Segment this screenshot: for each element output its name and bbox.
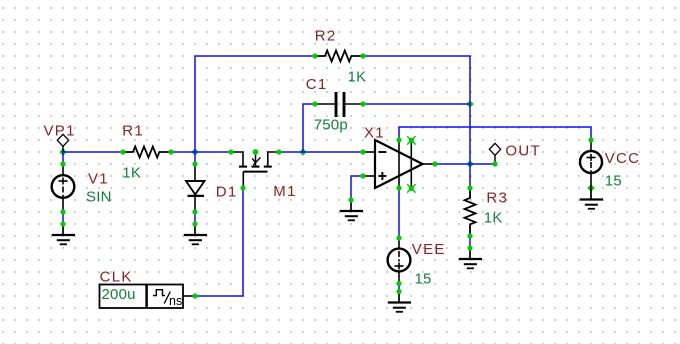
- svg-text:OUT: OUT: [505, 143, 541, 160]
- node junction C1-R2 bus: [466, 100, 473, 107]
- node junction at C1 tap: [299, 148, 306, 155]
- wire op-amp V- to VEE: [398, 188, 400, 238]
- no-connect mark on X1 pin bottom: [407, 184, 416, 193]
- wire node to D1: [194, 152, 196, 164]
- wire CLK to M1 gate: [195, 188, 243, 296]
- wire main input row V1 to R1: [63, 151, 123, 153]
- svg-text:VEE: VEE: [412, 241, 446, 258]
- svg-text:M1: M1: [273, 183, 296, 200]
- capacitor C1: [306, 76, 363, 134]
- wire D1 to ground: [194, 212, 196, 224]
- transistor M1: [231, 152, 297, 200]
- svg-text:R2: R2: [315, 27, 337, 44]
- svg-text:1K: 1K: [348, 69, 367, 86]
- op-amp X1: [363, 124, 435, 188]
- no-connect mark on X1 pin top: [407, 136, 416, 145]
- resistor R3: [465, 188, 509, 236]
- probe OUT: [489, 143, 541, 165]
- wire R1 to M1 source: [171, 151, 231, 153]
- wire op-amp output row: [435, 163, 495, 165]
- ground under VCC: [580, 188, 603, 209]
- node junction at R2 tap: [191, 148, 198, 155]
- svg-text:X1: X1: [364, 124, 385, 141]
- svg-text:R1: R1: [122, 123, 144, 140]
- svg-text:R3: R3: [486, 190, 508, 207]
- voltage source VCC: [580, 140, 640, 190]
- wire node to R3: [469, 164, 471, 188]
- ground under R3: [459, 248, 482, 268]
- wire VP1 node down to V1: [62, 152, 64, 164]
- svg-text:1K: 1K: [122, 165, 141, 182]
- svg-text:D1: D1: [216, 184, 238, 201]
- ground at op-amp plus input: [340, 200, 363, 220]
- node junction output-R3: [466, 160, 473, 167]
- voltage source V1: [52, 164, 112, 212]
- diode D1: [186, 164, 238, 212]
- svg-text:C1: C1: [306, 76, 328, 93]
- pin dots: [60, 53, 593, 298]
- voltage source VEE: [388, 238, 446, 287]
- svg-text:VP1: VP1: [44, 123, 76, 140]
- node junction VCC-ground: [587, 184, 594, 191]
- svg-text:SIN: SIN: [86, 189, 112, 206]
- svg-text:200u: 200u: [102, 286, 136, 303]
- resistor R1: [122, 123, 171, 182]
- wire M1 drain to node: [279, 151, 363, 153]
- wire R3 to ground: [469, 236, 471, 248]
- ground under V1: [52, 224, 75, 244]
- wire V1 to ground: [62, 212, 64, 224]
- svg-text:15: 15: [605, 173, 622, 190]
- digital source CLK: [100, 269, 196, 308]
- svg-text:V1: V1: [88, 170, 109, 187]
- probe VP1: [44, 123, 76, 152]
- svg-text:CLK: CLK: [100, 269, 133, 286]
- svg-text:15: 15: [415, 270, 432, 287]
- svg-text:1K: 1K: [484, 209, 503, 226]
- svg-text:VCC: VCC: [605, 150, 641, 167]
- ground under D1: [184, 224, 207, 244]
- svg-text:ns: ns: [169, 294, 182, 308]
- wire op-amp plus input to ground: [351, 176, 363, 200]
- wire VEE to ground: [398, 284, 400, 292]
- wire op-amp V+ to VCC: [399, 127, 591, 140]
- wire node up to R2: [195, 56, 315, 152]
- wire R2 right to vertical bus: [363, 56, 470, 164]
- resistor R2: [315, 27, 367, 85]
- ground under VEE: [388, 292, 411, 312]
- wire C1 left to node: [303, 104, 315, 152]
- svg-text:750p: 750p: [314, 117, 348, 134]
- node junction at VP1: [59, 148, 66, 155]
- wire C1 right to bus: [363, 103, 470, 105]
